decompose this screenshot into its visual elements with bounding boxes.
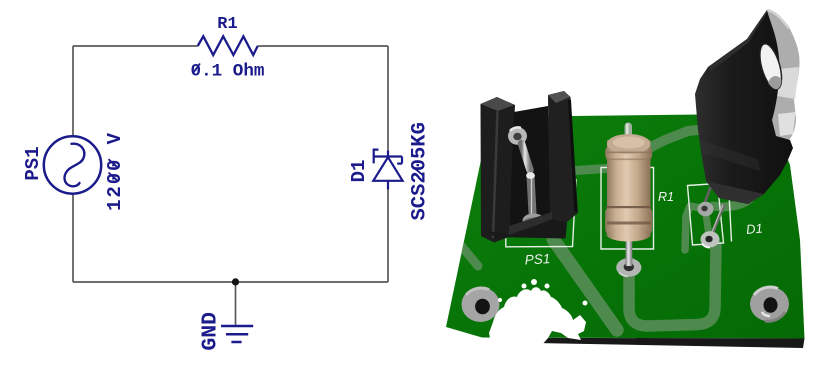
svg-text:D1: D1: [348, 160, 370, 183]
svg-text:D1: D1: [745, 221, 763, 237]
svg-text:0.1 Ohm: 0.1 Ohm: [191, 61, 265, 81]
svg-text:GND: GND: [199, 312, 223, 351]
svg-text:R1: R1: [658, 190, 674, 204]
svg-text:PS1: PS1: [22, 146, 44, 180]
svg-text:PS1: PS1: [524, 251, 550, 267]
svg-text:R1: R1: [217, 15, 237, 34]
svg-text:SCS205KG: SCS205KG: [409, 122, 432, 220]
svg-text:1200 V: 1200 V: [104, 131, 126, 211]
